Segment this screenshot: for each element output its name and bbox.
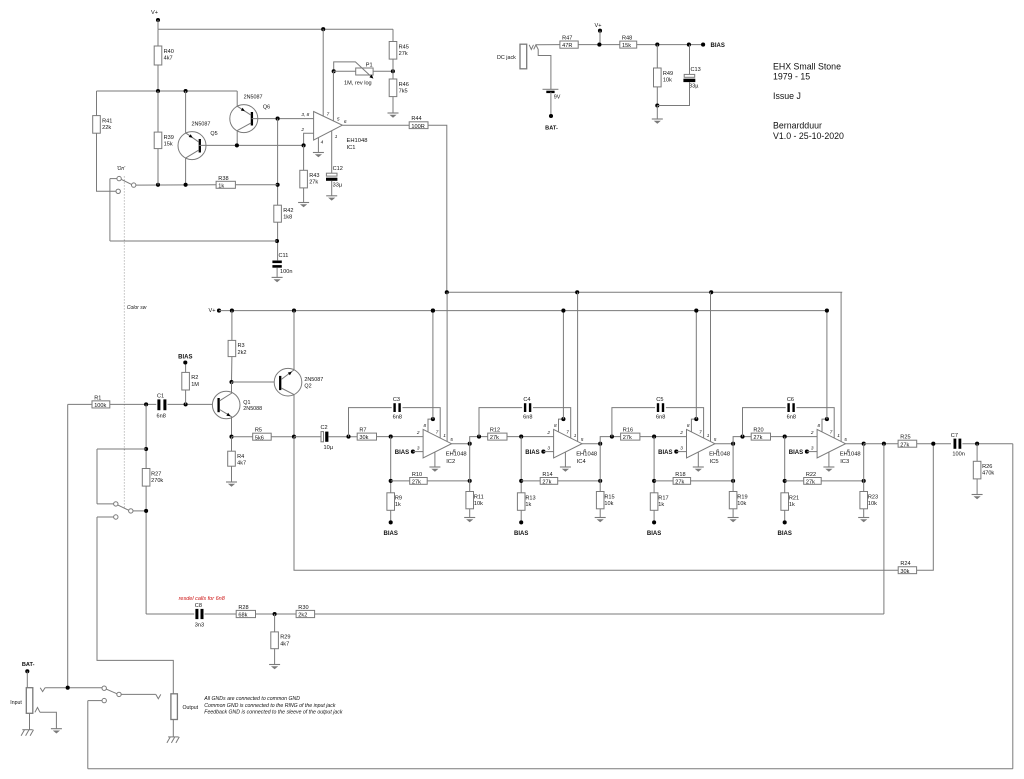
svg-text:C11: C11 xyxy=(279,253,289,259)
junction R14 row left IC4 xyxy=(519,479,523,483)
junction bus/Q2 emitter xyxy=(292,309,296,313)
junction R45/R46/P1 xyxy=(391,69,395,73)
junction Q6 base / R42 branch xyxy=(276,117,280,121)
svg-text:15k: 15k xyxy=(164,142,173,148)
junction feedback tap C3 xyxy=(346,435,350,439)
svg-text:100R: 100R xyxy=(411,124,424,130)
junction IC5 output node xyxy=(731,442,735,446)
junction V+ bus tap IC5 xyxy=(694,309,698,313)
wire node to R4 xyxy=(231,437,233,452)
wire Q5 base row xyxy=(199,144,304,146)
node V+ (LFO supply) xyxy=(151,10,160,29)
svg-text:R28: R28 xyxy=(238,605,248,611)
wire C13 bottom to R49 node xyxy=(657,82,689,105)
resistor R49 10k xyxy=(654,68,674,87)
wire C2 to R7 xyxy=(328,436,357,438)
wire R38 to R42 node xyxy=(236,184,278,186)
wire to R5 xyxy=(232,436,253,438)
svg-text:C4: C4 xyxy=(523,397,530,403)
wire bypass lower throw xyxy=(88,700,102,702)
svg-text:R44: R44 xyxy=(411,116,421,122)
svg-text:Q1: Q1 xyxy=(243,400,250,406)
resistor R3 2k2 xyxy=(228,340,246,356)
svg-text:R2: R2 xyxy=(191,375,198,381)
label BIAS below R17 xyxy=(647,531,661,537)
svg-text:6n8: 6n8 xyxy=(787,415,796,421)
resistor R4 4k7 xyxy=(228,451,246,466)
wire V+ feed IC3 xyxy=(826,311,828,420)
svg-text:2N5087: 2N5087 xyxy=(244,94,263,100)
svg-text:10k: 10k xyxy=(604,501,613,507)
svg-text:R11: R11 xyxy=(474,494,484,500)
junction bus/R3 xyxy=(230,309,234,313)
battery 9V xyxy=(543,89,561,100)
ground R4 xyxy=(226,482,237,487)
ground C12 xyxy=(326,196,337,201)
svg-text:2N5087: 2N5087 xyxy=(304,377,323,383)
wire IC1 pin4 to ground xyxy=(317,138,319,153)
resistor R14 27k xyxy=(540,472,558,486)
svg-text:V+: V+ xyxy=(209,308,216,314)
svg-text:5: 5 xyxy=(450,437,453,442)
svg-text:2k2: 2k2 xyxy=(298,613,307,619)
connector input jack xyxy=(10,688,45,714)
junction V+ bus tap IC2 xyxy=(431,309,435,313)
svg-text:EH1048: EH1048 xyxy=(576,452,597,458)
capacitor C6 6n8 xyxy=(787,397,796,420)
svg-text:V+: V+ xyxy=(595,23,602,29)
wire C4 left leg xyxy=(479,408,522,437)
svg-text:EH1048: EH1048 xyxy=(347,138,368,144)
resistor R2 1M xyxy=(182,372,200,390)
wire R21 to BIAS xyxy=(784,510,786,522)
wire IC2 pin4 to ground xyxy=(434,452,436,467)
svg-text:1k: 1k xyxy=(395,502,401,508)
resistor R25 27k xyxy=(898,435,917,449)
svg-text:10k: 10k xyxy=(474,501,483,507)
ground IC5 xyxy=(693,467,704,472)
wire R40 to LFO node xyxy=(157,65,159,91)
svg-text:Issue J: Issue J xyxy=(773,91,801,101)
node BIAS IC3 pin3 xyxy=(805,450,809,454)
svg-text:R26: R26 xyxy=(982,464,992,470)
svg-text:R25: R25 xyxy=(900,435,910,441)
wire IC4 output xyxy=(582,443,600,445)
wire rail to R45 xyxy=(392,29,394,41)
wire R29 from node xyxy=(274,614,276,632)
wire R43 to ground xyxy=(303,188,305,202)
wire BAT- to input jack xyxy=(26,671,28,687)
capacitor C7 100n xyxy=(951,433,965,457)
svg-text:7: 7 xyxy=(830,430,833,435)
junction LFO bus stage1 xyxy=(445,290,449,294)
potentiometer P1 1M rev log xyxy=(334,62,374,87)
svg-text:R1: R1 xyxy=(94,395,101,401)
junction IC3 pin8/V+ feed xyxy=(825,417,829,421)
wire R42 down to C11 node xyxy=(277,222,279,260)
junction R3/Q1/Q2 base xyxy=(229,380,233,384)
svg-text:R29: R29 xyxy=(280,635,290,641)
node BIAS IC4 pin3 xyxy=(541,450,545,454)
label Color sw xyxy=(127,305,147,311)
junction feedback tap C6 xyxy=(740,435,744,439)
node BIAS below R13 xyxy=(519,520,523,524)
wire rail down to Q6 emitter xyxy=(236,91,238,107)
svg-text:BIAS: BIAS xyxy=(384,531,398,537)
svg-text:8: 8 xyxy=(424,423,427,428)
wire lower throw down to bottom return xyxy=(87,701,89,769)
node BIAS below R9 xyxy=(389,520,393,524)
resistor R1 100k xyxy=(92,395,110,409)
capacitor C13 33u (electrolytic) xyxy=(683,67,700,90)
svg-text:10k: 10k xyxy=(663,77,672,83)
wire node to C2 xyxy=(294,436,321,438)
label BAT- (power) xyxy=(545,126,558,132)
svg-text:R10: R10 xyxy=(412,472,422,478)
node BIAS below R21 xyxy=(783,520,787,524)
svg-text:R45: R45 xyxy=(399,44,409,50)
svg-text:1k: 1k xyxy=(789,502,795,508)
svg-text:IC5: IC5 xyxy=(710,459,719,465)
label BIAS (power) xyxy=(711,43,725,49)
svg-text:EH1048: EH1048 xyxy=(709,452,730,458)
wire R4 to ground xyxy=(231,466,233,482)
wire R24 to C7 node xyxy=(917,444,934,571)
junction R49/row xyxy=(655,43,659,47)
wire R18 row xyxy=(654,480,673,482)
svg-text:2k2: 2k2 xyxy=(238,350,247,356)
svg-text:R5: R5 xyxy=(255,428,262,434)
junction Q5 collector/row xyxy=(184,183,188,187)
chassis ground output jack xyxy=(167,737,179,743)
svg-text:30k: 30k xyxy=(900,569,909,575)
junction IC3 output node xyxy=(862,442,866,446)
wire R41 to switch throw xyxy=(97,133,116,191)
mechanical link dotted line (Color sw) xyxy=(123,177,125,510)
wire R1 to C1 xyxy=(110,403,157,405)
wire On switch top throw down xyxy=(109,179,111,241)
svg-text:1: 1 xyxy=(443,433,446,438)
svg-text:Bernardduur: Bernardduur xyxy=(773,121,822,131)
svg-text:27k: 27k xyxy=(309,180,318,186)
wire input jack sleeve to chassis xyxy=(29,713,31,729)
wire C12 to ground xyxy=(331,181,333,196)
svg-text:27k: 27k xyxy=(806,480,815,486)
wire R26 to ground xyxy=(976,479,978,494)
svg-text:1k: 1k xyxy=(525,502,531,508)
junction input node IC5 xyxy=(652,435,656,439)
wire R3 to Q1 collector node xyxy=(231,357,233,382)
wire R5 to Q2 node xyxy=(271,436,294,438)
svg-text:R41: R41 xyxy=(102,118,112,124)
wire C5 left leg xyxy=(612,408,655,437)
op-amp IC4 EH1048 xyxy=(546,423,597,465)
wire BIAS to IC4 pin3 xyxy=(543,451,553,453)
svg-text:C8: C8 xyxy=(195,603,202,609)
wire output node down to C8 row xyxy=(883,444,885,614)
wire Q5 collector down xyxy=(185,158,187,185)
svg-text:R21: R21 xyxy=(789,496,799,502)
svg-text:R48: R48 xyxy=(622,36,632,42)
junction LFO bus stage3 xyxy=(709,290,713,294)
wire color switch branch xyxy=(97,448,146,450)
svg-text:270k: 270k xyxy=(151,478,163,484)
svg-text:BIAS: BIAS xyxy=(395,450,409,456)
wire V+ stage bus xyxy=(219,310,828,312)
capacitor C2 10u (electrolytic) xyxy=(321,425,334,451)
wire R20 to input node xyxy=(771,436,818,438)
svg-text:100n: 100n xyxy=(952,451,964,457)
resistor R43 27k xyxy=(300,170,320,188)
svg-text:C6: C6 xyxy=(787,397,794,403)
svg-text:1: 1 xyxy=(574,433,577,438)
junction feedback tap C4 xyxy=(477,435,481,439)
wire V+ feed IC5 xyxy=(695,311,697,420)
svg-text:C5: C5 xyxy=(656,397,663,403)
svg-text:7: 7 xyxy=(327,111,330,116)
wire R29 to ground xyxy=(274,649,276,665)
svg-text:BAT-: BAT- xyxy=(545,126,558,132)
wire DC jack tip to R47 xyxy=(536,44,560,46)
svg-text:100n: 100n xyxy=(280,269,292,275)
junction Q5 emitter/rail xyxy=(184,89,188,93)
wire output node down to R11 xyxy=(469,444,471,492)
svg-text:6n8: 6n8 xyxy=(393,415,402,421)
transistor Q1 2N5088 xyxy=(212,391,262,419)
svg-text:6n8: 6n8 xyxy=(523,415,532,421)
junction R49/C13 bottom xyxy=(655,103,659,107)
svg-text:4k7: 4k7 xyxy=(280,641,289,647)
capacitor C4 6n8 xyxy=(523,397,532,420)
svg-text:'On': 'On' xyxy=(117,166,127,172)
ground R11 xyxy=(464,518,475,523)
svg-text:27k: 27k xyxy=(900,442,909,448)
wire R7 to input node xyxy=(377,436,424,438)
wire C7 to output corner xyxy=(962,443,1012,445)
svg-text:Q6: Q6 xyxy=(263,105,270,111)
node BAT- (input jack) xyxy=(25,669,29,673)
svg-text:All GNDs are connected to comm: All GNDs are connected to common GND xyxy=(203,696,300,702)
wire R2 to BIAS xyxy=(185,363,187,373)
node BIAS IC2 pin3 xyxy=(411,450,415,454)
wire bottom node to ground xyxy=(656,106,658,119)
svg-text:R17: R17 xyxy=(658,496,668,502)
svg-text:27k: 27k xyxy=(542,480,551,486)
svg-text:3: 3 xyxy=(547,445,550,450)
svg-text:R49: R49 xyxy=(663,71,673,77)
wire C5 right leg to pin7 xyxy=(666,408,704,438)
svg-text:1k8: 1k8 xyxy=(283,215,292,221)
ground input ring (common) xyxy=(51,729,62,734)
wire IC1 pin2 input xyxy=(304,133,314,145)
junction IC5 pin8/V+ feed xyxy=(694,417,698,421)
wire stage4 output to R25 xyxy=(864,443,898,445)
wire R10 row xyxy=(391,480,410,482)
svg-text:27k: 27k xyxy=(399,51,408,57)
ground IC2 xyxy=(429,467,440,472)
svg-text:C7: C7 xyxy=(951,433,958,439)
wire R26 from node xyxy=(976,444,978,462)
svg-text:R43: R43 xyxy=(309,173,319,179)
svg-text:27k: 27k xyxy=(412,480,421,486)
label BIAS IC5 pin3 xyxy=(658,450,672,456)
junction input node IC4 xyxy=(519,435,523,439)
node BIAS below R17 xyxy=(652,520,656,524)
resistor R10 27k xyxy=(410,472,428,486)
node BIAS (power) xyxy=(701,43,705,47)
wire Q1 emitter down xyxy=(231,417,233,437)
svg-text:3n3: 3n3 xyxy=(195,622,204,628)
switch 'On' label xyxy=(117,166,127,172)
svg-text:R38: R38 xyxy=(218,176,228,182)
wire R23 to ground xyxy=(863,509,865,518)
svg-text:1M, rev log: 1M, rev log xyxy=(344,81,372,87)
junction R38 right / R42 xyxy=(276,183,280,187)
label BAT- (input jack) xyxy=(22,662,35,668)
wire rail to R41 xyxy=(96,91,98,116)
svg-text:3: 3 xyxy=(680,445,683,450)
svg-text:R9: R9 xyxy=(395,496,402,502)
junction Q6 collector / base row xyxy=(235,143,239,147)
wire IC1 pin1 to C12 xyxy=(331,131,333,173)
svg-text:7: 7 xyxy=(436,430,439,435)
junction R25/C7/R24 xyxy=(931,442,935,446)
wire switch lower throw to output jack xyxy=(97,517,173,694)
wire IC4 pin4 to ground xyxy=(564,452,566,467)
wire IC3 pin4 to ground xyxy=(828,452,830,467)
svg-text:Q5: Q5 xyxy=(210,131,217,137)
junction output / bottom feedback xyxy=(882,442,886,446)
op-amp IC5 EH1048 xyxy=(679,423,730,465)
svg-text:C3: C3 xyxy=(393,397,400,403)
wire R43 to node xyxy=(303,145,305,170)
wire C3 right leg to pin7 xyxy=(403,408,441,438)
wire BIAS to IC3 pin3 xyxy=(807,451,817,453)
wire LFO distribution bus xyxy=(447,291,842,293)
wire Q6 base row xyxy=(252,118,314,120)
svg-text:BIAS: BIAS xyxy=(658,450,672,456)
junction R39 bottom/row xyxy=(156,183,160,187)
wire C1 to Q1 base xyxy=(168,403,214,405)
svg-text:Q2: Q2 xyxy=(304,384,311,390)
svg-text:15k: 15k xyxy=(622,43,631,49)
svg-text:470k: 470k xyxy=(982,471,994,477)
resistor R15 10k xyxy=(596,492,614,509)
wire BIAS to IC2 pin3 xyxy=(413,451,423,453)
wire IC5 pin8 stub xyxy=(691,419,696,432)
svg-text:BIAS: BIAS xyxy=(789,450,803,456)
junction C13/row xyxy=(687,43,691,47)
wire LFO bottom row xyxy=(110,240,277,242)
capacitor C12 33u (electrolytic) xyxy=(326,166,343,188)
svg-text:EH1048: EH1048 xyxy=(446,452,467,458)
label red note xyxy=(179,596,226,602)
wire IC1 output xyxy=(342,124,409,126)
wire C6 left leg xyxy=(743,408,786,437)
wire R14 row right xyxy=(558,480,601,482)
svg-text:33µ: 33µ xyxy=(689,84,699,90)
wire stage1-2 link xyxy=(470,437,488,444)
svg-text:R13: R13 xyxy=(525,496,535,502)
resistor R47 47R xyxy=(560,36,578,50)
svg-text:7: 7 xyxy=(566,430,569,435)
transistor Q5 2N5087 xyxy=(178,121,218,159)
svg-text:R15: R15 xyxy=(604,494,614,500)
wire input node down IC2 xyxy=(390,437,392,493)
junction R18 row left IC5 xyxy=(652,479,656,483)
junction R22 row left IC3 xyxy=(783,479,787,483)
switch Color (section 2) xyxy=(97,502,144,520)
junction IC4 output node xyxy=(598,442,602,446)
wire R15 to ground xyxy=(599,509,601,518)
resistor R29 4k7 xyxy=(271,632,291,649)
wire R16 to input node xyxy=(640,436,687,438)
wire top supply rail xyxy=(158,28,393,30)
svg-text:C12: C12 xyxy=(333,166,343,172)
wire Q2 base xyxy=(232,381,281,383)
junction V+ / supply row xyxy=(597,43,601,47)
svg-text:8: 8 xyxy=(687,423,690,428)
junction V+ bus tap IC2 xyxy=(431,309,435,313)
svg-text:BIAS: BIAS xyxy=(711,43,725,49)
wire output right edge down xyxy=(1012,444,1014,769)
wire R19 to ground xyxy=(732,509,734,518)
wire output node down to R19 xyxy=(732,444,734,492)
resistor R19 10k xyxy=(729,492,747,509)
svg-text:Common GND is connected to the: Common GND is connected to the RING of t… xyxy=(204,703,336,709)
wire R48 to BIAS xyxy=(637,44,703,46)
svg-text:R40: R40 xyxy=(164,49,174,55)
transistor Q6 2N5087 xyxy=(230,94,270,132)
svg-text:10k: 10k xyxy=(737,501,746,507)
svg-text:R42: R42 xyxy=(283,208,293,214)
resistor R42 1k8 xyxy=(274,205,294,222)
ground R46 xyxy=(388,113,399,118)
wire output node down to R15 xyxy=(599,444,601,492)
resistor R44 100R xyxy=(409,116,428,130)
svg-text:R20: R20 xyxy=(753,428,763,434)
capacitor C8 3n3 xyxy=(195,603,204,628)
wire R44 to LFO bus xyxy=(428,125,447,292)
wire P1 right to R45/R46 xyxy=(373,70,393,72)
svg-text:R7: R7 xyxy=(359,428,366,434)
junction input node IC2 xyxy=(389,435,393,439)
wire Q1 collector up xyxy=(231,382,233,393)
junction input node / R27 branch xyxy=(144,402,148,406)
node BAT- (power) xyxy=(549,114,553,118)
svg-text:Feedback GND is connected to t: Feedback GND is connected to the sleeve … xyxy=(204,710,343,716)
svg-text:BIAS: BIAS xyxy=(778,531,792,537)
svg-text:4: 4 xyxy=(321,140,324,145)
svg-text:DC jack: DC jack xyxy=(497,55,516,61)
wire R46 to ground xyxy=(392,97,394,113)
wire input node down IC3 xyxy=(784,437,786,493)
junction top rail / IC1 pin7 xyxy=(321,27,325,31)
wire LFO feed IC5 pin1 xyxy=(710,292,712,441)
title text block xyxy=(773,61,844,140)
wire R12 to input node xyxy=(507,436,554,438)
svg-text:27k: 27k xyxy=(753,435,762,441)
node BIAS (R2) xyxy=(183,360,187,364)
wire stage2-3 link xyxy=(600,437,620,444)
ground C11 xyxy=(272,277,283,282)
junction R2 / base node xyxy=(184,402,188,406)
wire output jack sleeve to chassis xyxy=(172,720,174,737)
op-amp IC2 EH1048 xyxy=(416,423,467,465)
svg-text:7: 7 xyxy=(699,430,702,435)
svg-text:R46: R46 xyxy=(399,82,409,88)
svg-text:R12: R12 xyxy=(490,428,500,434)
